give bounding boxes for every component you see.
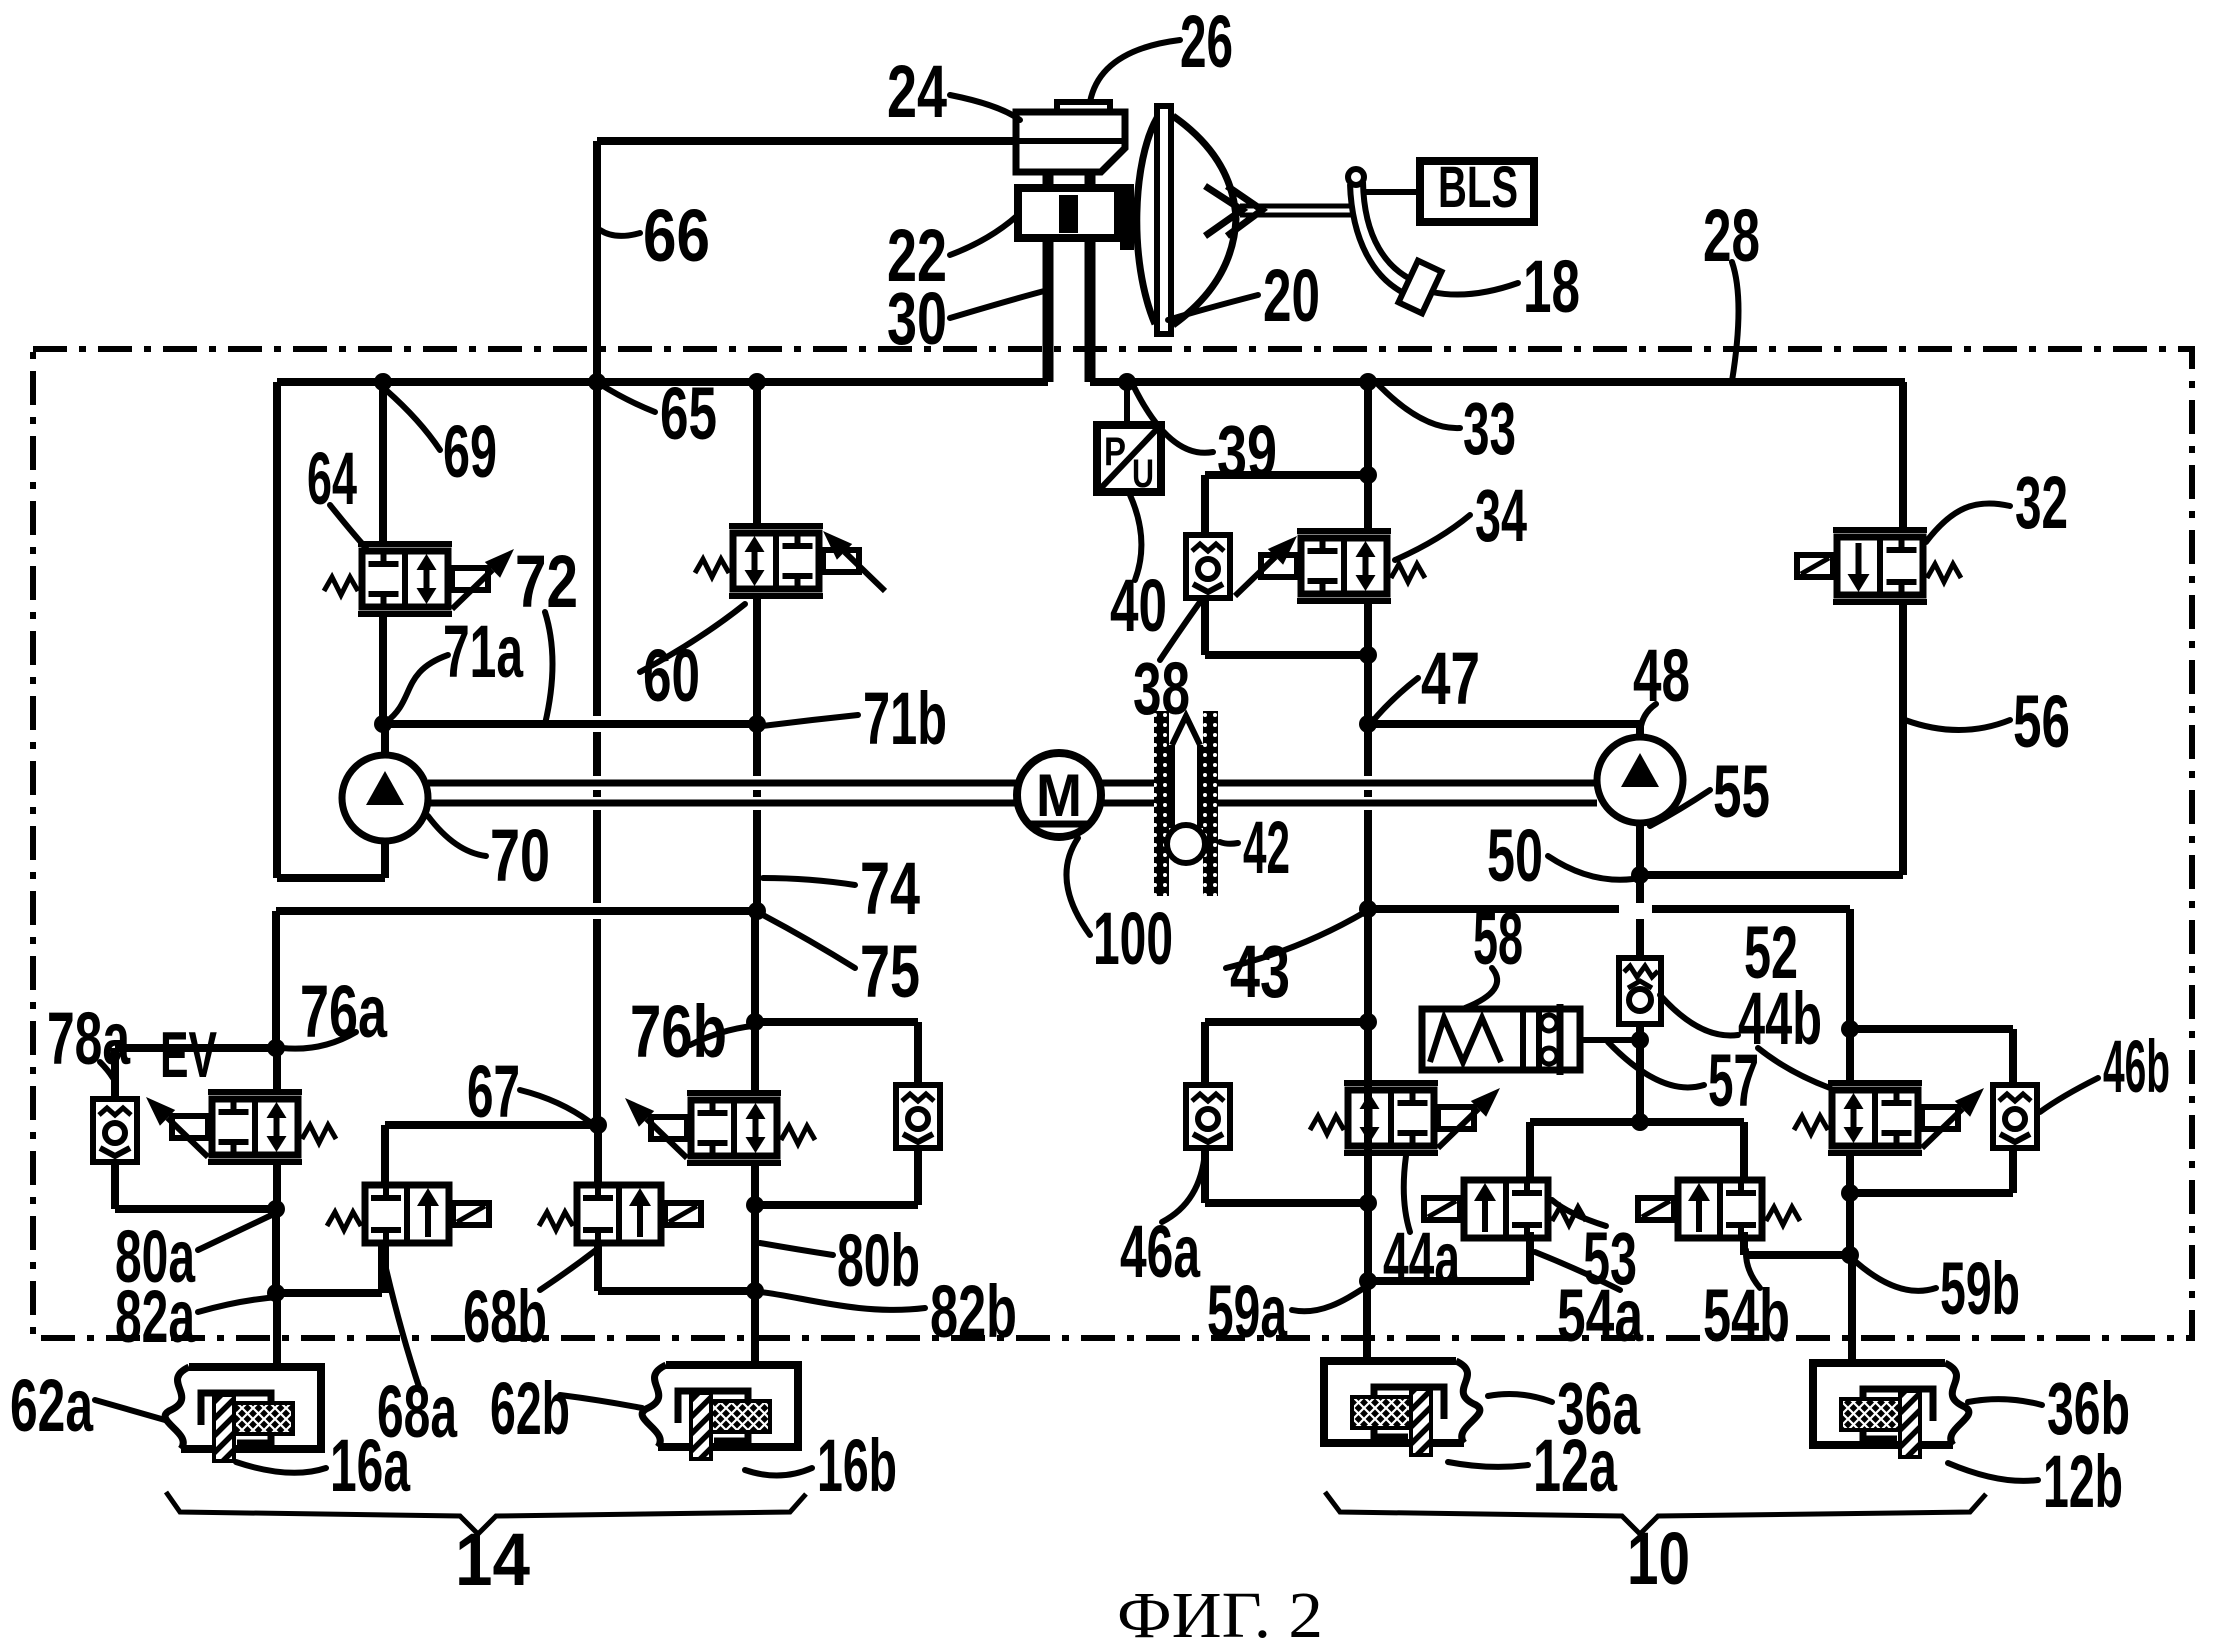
svg-text:ФИГ. 2: ФИГ. 2 bbox=[1117, 1579, 1323, 1649]
svg-text:76a: 76a bbox=[300, 970, 388, 1053]
svg-text:47: 47 bbox=[1421, 637, 1480, 720]
svg-text:78a: 78a bbox=[47, 997, 131, 1080]
svg-text:62b: 62b bbox=[490, 1367, 570, 1450]
svg-text:P: P bbox=[1104, 430, 1126, 474]
svg-text:34: 34 bbox=[1475, 474, 1527, 557]
svg-text:14: 14 bbox=[455, 1518, 530, 1601]
svg-text:66: 66 bbox=[643, 194, 710, 277]
svg-text:40: 40 bbox=[1110, 564, 1167, 647]
svg-text:76b: 76b bbox=[630, 990, 727, 1073]
svg-text:55: 55 bbox=[1713, 750, 1770, 833]
svg-text:M: M bbox=[1036, 762, 1082, 829]
svg-text:12a: 12a bbox=[1533, 1424, 1618, 1507]
svg-text:82b: 82b bbox=[930, 1270, 1017, 1353]
svg-text:18: 18 bbox=[1523, 245, 1580, 328]
svg-text:36b: 36b bbox=[2047, 1367, 2130, 1450]
svg-text:59b: 59b bbox=[1940, 1247, 2020, 1330]
svg-text:82a: 82a bbox=[115, 1275, 196, 1358]
svg-text:42: 42 bbox=[1243, 806, 1290, 889]
svg-text:56: 56 bbox=[2013, 680, 2070, 763]
svg-text:32: 32 bbox=[2015, 461, 2068, 544]
svg-text:71b: 71b bbox=[863, 677, 947, 760]
svg-text:39: 39 bbox=[1217, 410, 1277, 493]
svg-text:71a: 71a bbox=[443, 610, 524, 693]
svg-text:80b: 80b bbox=[837, 1219, 920, 1302]
svg-text:67: 67 bbox=[467, 1050, 520, 1133]
svg-text:74: 74 bbox=[860, 847, 920, 930]
svg-text:44b: 44b bbox=[1738, 977, 1822, 1060]
svg-text:16a: 16a bbox=[330, 1424, 411, 1507]
svg-text:60: 60 bbox=[643, 634, 700, 717]
svg-text:26: 26 bbox=[1180, 0, 1233, 83]
svg-text:10: 10 bbox=[1627, 1517, 1690, 1600]
svg-text:48: 48 bbox=[1633, 634, 1690, 717]
svg-text:EV: EV bbox=[160, 1018, 217, 1091]
svg-text:16b: 16b bbox=[817, 1424, 897, 1507]
svg-text:38: 38 bbox=[1133, 647, 1190, 730]
svg-text:33: 33 bbox=[1463, 387, 1516, 470]
svg-text:69: 69 bbox=[443, 410, 497, 493]
svg-text:65: 65 bbox=[660, 372, 717, 455]
svg-text:64: 64 bbox=[307, 437, 357, 520]
svg-text:12b: 12b bbox=[2043, 1440, 2123, 1523]
svg-text:43: 43 bbox=[1230, 930, 1290, 1013]
svg-text:28: 28 bbox=[1703, 194, 1760, 277]
svg-text:30: 30 bbox=[887, 277, 947, 360]
svg-text:24: 24 bbox=[887, 50, 947, 133]
svg-text:100: 100 bbox=[1093, 897, 1173, 980]
svg-text:54b: 54b bbox=[1703, 1274, 1790, 1357]
svg-text:U: U bbox=[1132, 452, 1154, 496]
svg-text:68b: 68b bbox=[463, 1275, 547, 1358]
svg-text:44a: 44a bbox=[1383, 1217, 1461, 1300]
svg-text:46a: 46a bbox=[1120, 1210, 1201, 1293]
svg-text:46b: 46b bbox=[2103, 1025, 2170, 1108]
svg-text:75: 75 bbox=[860, 930, 920, 1013]
svg-text:50: 50 bbox=[1487, 814, 1543, 897]
svg-text:62a: 62a bbox=[10, 1364, 94, 1447]
svg-text:59a: 59a bbox=[1207, 1270, 1288, 1353]
svg-text:72: 72 bbox=[515, 540, 578, 623]
svg-text:70: 70 bbox=[490, 814, 550, 897]
svg-text:BLS: BLS bbox=[1438, 155, 1518, 220]
svg-text:54a: 54a bbox=[1557, 1274, 1644, 1357]
svg-text:58: 58 bbox=[1473, 897, 1523, 980]
svg-text:20: 20 bbox=[1263, 254, 1320, 337]
